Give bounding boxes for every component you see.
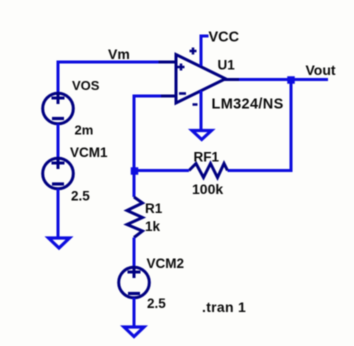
pin stub output (224, 78, 240, 81)
wire - input loop (134, 96, 161, 197)
svg-text:Vm: Vm (108, 46, 130, 62)
wire V- to ground (200, 91, 203, 131)
marker - power (193, 103, 198, 106)
wire VCM2 to ground (133, 298, 136, 326)
marker + power (190, 50, 197, 53)
svg-text:R1: R1 (145, 201, 163, 216)
svg-text:2m: 2m (75, 123, 94, 138)
junction feedback node (131, 167, 139, 175)
svg-text:VCC: VCC (209, 30, 240, 46)
junction output node (287, 76, 295, 84)
resistor RF1 (189, 164, 228, 178)
svg-text:VCM2: VCM2 (147, 256, 185, 271)
voltage source VCM1 (43, 157, 74, 189)
voltage source VOS (43, 92, 74, 124)
svg-text:1k: 1k (145, 219, 161, 234)
ground (124, 327, 144, 337)
svg-text:Vout: Vout (306, 62, 336, 78)
wire VCC (201, 36, 209, 66)
marker - input (179, 92, 186, 95)
svg-text:2.5: 2.5 (147, 296, 166, 311)
pin stub + input (159, 61, 177, 64)
resistor R1 (127, 197, 143, 238)
svg-text:RF1: RF1 (194, 150, 220, 165)
wire VCM1 to ground (57, 189, 60, 237)
wire RF1 left to junction (134, 169, 189, 172)
wire VOS to VCM1 (57, 124, 60, 159)
ground (49, 238, 70, 248)
marker + input (178, 66, 185, 69)
svg-text:U1: U1 (218, 58, 236, 73)
wire Vm horizontal and down to VOS (58, 62, 161, 93)
svg-text:LM324/NS: LM324/NS (212, 97, 284, 113)
voltage source VCM2 (119, 266, 150, 298)
svg-text:100k: 100k (192, 181, 223, 197)
wire feedback vertical right (228, 80, 292, 171)
pin stub - input (159, 95, 177, 98)
op-amp U1 (159, 48, 241, 105)
svg-text:2.5: 2.5 (71, 189, 90, 204)
svg-text:VOS: VOS (72, 78, 100, 93)
ground (192, 131, 212, 140)
svg-text:.tran 1: .tran 1 (202, 299, 246, 315)
wire output to Vout (239, 78, 328, 81)
wire R1 to VCM2 (133, 238, 136, 268)
svg-text:VCM1: VCM1 (70, 145, 108, 160)
